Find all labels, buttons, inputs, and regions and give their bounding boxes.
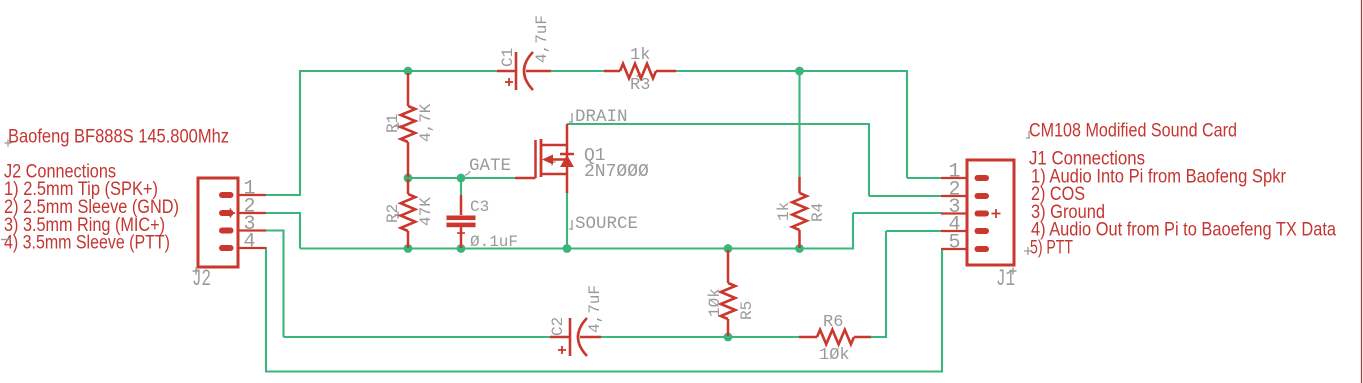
- pin label DRAIN: [569, 107, 628, 127]
- wire net SPK+ top row left of C1: [299, 70, 497, 72]
- wire net SPK+ vertical x908 down: [906, 70, 908, 178]
- junction bottom row R2: [404, 244, 413, 253]
- resistor R4: [792, 177, 807, 248]
- wire net MIC+ into J1 pin4: [886, 230, 942, 232]
- label C3 value 0.1uF: [470, 233, 518, 251]
- pin number J1-3: [949, 196, 961, 219]
- wire net SPK+ top row R3 to corner x908: [675, 70, 908, 72]
- wire net MIC+ C2 to R6: [601, 336, 800, 338]
- wire R4 top vertical from top row: [798, 71, 800, 178]
- annotation J1 list line 5: [1030, 237, 1073, 259]
- label C2 name: [549, 317, 567, 336]
- pin number J1-4: [949, 214, 961, 237]
- svg-text:4,7uF: 4,7uF: [586, 285, 604, 333]
- wire net SPK+ into J1 pin1: [907, 177, 942, 179]
- wire net PTT J2 pin4 corner down: [265, 247, 267, 372]
- label C3 name: [470, 198, 489, 216]
- svg-text:Ø.1uF: Ø.1uF: [470, 233, 518, 251]
- connector J2 pin 1: [219, 192, 266, 198]
- connector J1 pin 4: [941, 228, 989, 234]
- annotation J2 list line 1: [4, 178, 158, 200]
- label R5 value 10k: [706, 288, 724, 317]
- svg-text:R5: R5: [738, 301, 756, 320]
- label R4 value 1k: [775, 202, 793, 221]
- label Q1 value 2N7000: [584, 162, 649, 182]
- junction bottom row SOURCE: [563, 244, 572, 253]
- svg-text:R3: R3: [630, 76, 650, 95]
- wire net MIC+ J2 pin3 stub: [265, 229, 284, 231]
- annotation J2 Connections heading: [4, 160, 116, 182]
- wire net PTT bottom long row: [265, 370, 943, 372]
- annotation J2 list line 2: [4, 196, 179, 218]
- wire net MIC+ vertical x887 up: [885, 231, 887, 338]
- label Q1 name: [584, 146, 606, 166]
- label R3 value 1k: [630, 46, 650, 65]
- label R2 value 47K: [417, 197, 435, 226]
- svg-text:R6: R6: [823, 313, 843, 332]
- label R1 value 4,7K: [417, 103, 435, 142]
- svg-text:1k: 1k: [630, 46, 650, 65]
- junction gate row C3: [457, 174, 466, 183]
- svg-text:C3: C3: [470, 198, 489, 216]
- pin label GATE: [465, 156, 511, 176]
- label C1 value 4.7uF: [533, 15, 551, 63]
- pin number J1-1: [949, 161, 961, 184]
- svg-text:Baofeng BF888S 145.800Mhz: Baofeng BF888S 145.800Mhz: [8, 126, 229, 148]
- annotation J1 list line 1: [1031, 165, 1286, 187]
- svg-text:4,7uF: 4,7uF: [533, 15, 551, 63]
- pin number J1-2: [949, 179, 961, 202]
- wire net GND into J1 pin3: [853, 212, 942, 214]
- svg-text:2N7ØØØ: 2N7ØØØ: [584, 162, 649, 182]
- label R4 name: [809, 203, 827, 222]
- wire net PTT into J1 pin5: [942, 248, 947, 250]
- junction bottom row R5: [724, 244, 733, 253]
- capacitor C1 polarized: [497, 52, 551, 90]
- label R6 name: [823, 313, 843, 332]
- svg-text:SOURCE: SOURCE: [575, 214, 638, 234]
- capacitor C3: [447, 195, 476, 248]
- wire net GND bottom row: [300, 247, 854, 249]
- annotation J2 list line 3: [4, 214, 165, 236]
- pin number J2-1: [244, 178, 256, 201]
- junction top row R4: [795, 67, 804, 76]
- wire net DRAIN vertical x869 down: [868, 123, 870, 196]
- pin label SOURCE: [569, 214, 638, 234]
- svg-text:5: 5: [949, 232, 961, 255]
- annotation Baofeng title: [8, 126, 229, 148]
- transistor Q1 2N7000 N-MOSFET: [515, 124, 574, 193]
- frame right border: [1361, 0, 1363, 383]
- wire net PTT vertical x942 up: [941, 249, 943, 372]
- wire net MIC+ vertical x284 down: [282, 230, 284, 338]
- wire net GATE C3 top stub: [460, 178, 462, 195]
- svg-text:R4: R4: [809, 203, 827, 222]
- wire net MIC+ R6 to corner x887: [870, 336, 887, 338]
- svg-text:1Øk: 1Øk: [706, 288, 724, 317]
- svg-text:4: 4: [244, 231, 256, 254]
- label C2 value 4.7uF: [586, 285, 604, 333]
- annotation J1 list line 3: [1031, 201, 1105, 223]
- svg-text:J1: J1: [996, 266, 1015, 292]
- connector J2 pin 2: [219, 209, 266, 218]
- label R5 name: [738, 301, 756, 320]
- label C1 name: [499, 48, 517, 67]
- label J2 name: [192, 266, 211, 292]
- resistor R1: [395, 73, 416, 177]
- connector J1 pin 1: [941, 175, 989, 181]
- connector J2 pin 4: [219, 245, 266, 251]
- svg-text:4,7K: 4,7K: [417, 103, 435, 142]
- svg-text:4) 3.5mm Sleeve (PTT): 4) 3.5mm Sleeve (PTT): [4, 232, 170, 254]
- resistor R2: [395, 179, 416, 248]
- wire SOURCE down to bottom row: [566, 192, 568, 249]
- junction top row R1: [404, 67, 413, 76]
- wire net GATE row: [408, 177, 515, 179]
- svg-text:C1: C1: [499, 48, 517, 67]
- svg-text:1Øk: 1Øk: [819, 346, 850, 365]
- wire net DRAIN to corner x869: [567, 123, 870, 125]
- svg-text:5) PTT: 5) PTT: [1030, 237, 1073, 259]
- svg-text:CM108 Modified Sound Card: CM108 Modified Sound Card: [1029, 120, 1237, 142]
- wire net GND J2 pin2 stub: [265, 212, 301, 214]
- resistor R6: [799, 330, 871, 345]
- annotation J1 list line 2: [1031, 183, 1085, 205]
- annotation CM108 title: [1029, 120, 1237, 142]
- svg-text:DRAIN: DRAIN: [575, 107, 628, 127]
- label R2 name: [384, 204, 402, 223]
- label J1 name: [996, 266, 1017, 292]
- connector J2 pin 3: [219, 228, 266, 234]
- connector J1 pin 2: [941, 193, 989, 199]
- annotation J1 Connections heading: [1029, 148, 1145, 170]
- label R6 value 10k: [819, 346, 850, 365]
- connector J1 pin 5: [941, 246, 989, 252]
- wire net SPK+ vertical x300: [299, 70, 301, 196]
- annotation J2 list line 4: [4, 232, 170, 254]
- wire net DRAIN into J1 pin2: [869, 195, 942, 197]
- label R1 name: [384, 114, 402, 133]
- wire net GND vertical x300 down: [299, 212, 301, 249]
- wire net MIC+ row to C2: [284, 336, 551, 338]
- pin number J2-4: [244, 231, 256, 254]
- pin number J2-2: [244, 196, 256, 219]
- junction R5 bottom C2 row: [724, 333, 733, 342]
- connector J1 pin 3: [941, 209, 1001, 218]
- resistor R5: [721, 250, 736, 336]
- pin number J2-3: [244, 213, 256, 236]
- svg-text:R2: R2: [384, 204, 402, 223]
- svg-text:C2: C2: [549, 317, 567, 336]
- junction gate row R1 R2: [404, 174, 413, 183]
- svg-text:R1: R1: [384, 114, 402, 133]
- svg-text:J2: J2: [192, 266, 211, 292]
- svg-text:47K: 47K: [417, 197, 435, 226]
- wire net SPK+ top row C1 to R3: [551, 70, 604, 72]
- svg-text:4) Audio Out from Pi to Baoefe: 4) Audio Out from Pi to Baoefeng TX Data: [1031, 219, 1336, 241]
- connector J2 body: [198, 178, 238, 267]
- junction bottom row C3: [457, 244, 466, 253]
- pin number J1-5: [949, 232, 961, 255]
- connector J1 body: [967, 160, 1014, 265]
- svg-text:GATE: GATE: [469, 156, 511, 176]
- junction bottom row R4: [795, 244, 804, 253]
- resistor R3: [604, 64, 676, 80]
- wire net GND vertical x854 up: [852, 213, 854, 249]
- annotation J1 list line 4: [1031, 219, 1336, 241]
- wire net SPK+ J2 pin1 to vertical: [265, 194, 301, 196]
- svg-text:1k: 1k: [775, 202, 793, 221]
- capacitor C2 polarized: [550, 318, 601, 356]
- label R3 name: [630, 76, 650, 95]
